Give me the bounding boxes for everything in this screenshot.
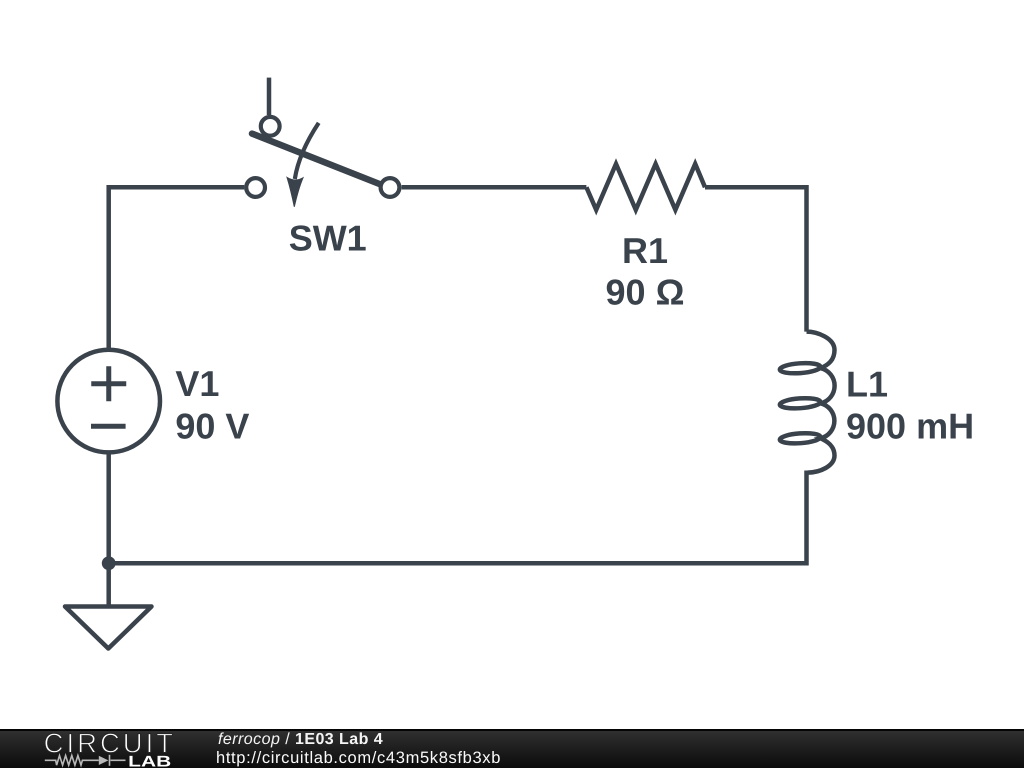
V1 minus sign [91, 424, 126, 429]
wire top-left horizontal and left vertical down to V1 [109, 187, 245, 349]
svg-text:900 mH: 900 mH [846, 406, 974, 447]
junction node dot [102, 556, 116, 570]
svg-text:90 Ω: 90 Ω [606, 272, 685, 313]
inductor L1 loop 1 [780, 362, 821, 375]
wire left vertical below V1 down to ground [106, 453, 111, 606]
switch SW1 top stub wire [267, 78, 272, 115]
ground symbol [65, 607, 152, 649]
footer url line [216, 748, 501, 767]
footer CircuitLab logo [40, 729, 220, 768]
V1 plus sign [91, 366, 126, 401]
wire from switch right terminal to resistor [402, 185, 587, 190]
switch SW1 arrowhead [287, 177, 303, 206]
switch SW1 left terminal circle [246, 178, 265, 197]
switch SW1 arrow arc [295, 123, 319, 179]
svg-text:R1: R1 [622, 230, 668, 271]
svg-text:SW1: SW1 [289, 217, 367, 258]
switch SW1 blade [252, 134, 380, 184]
inductor L1 coil bumps [807, 332, 835, 473]
bottom black footer bar [0, 729, 1024, 768]
inductor L1 loop 2 [780, 397, 821, 410]
resistor R1 body [586, 164, 705, 210]
switch SW1 top terminal circle [261, 117, 280, 136]
svg-text:L1: L1 [846, 363, 888, 404]
logo resistor-diode squiggle [45, 755, 126, 766]
logo diode triangle [99, 756, 109, 765]
wire from resistor to top-right corner down to inductor [705, 187, 807, 331]
wire right vertical below inductor and bottom horizontal [107, 471, 807, 564]
switch SW1 right terminal circle [381, 178, 400, 197]
svg-text:90 V: 90 V [175, 406, 249, 447]
inductor L1 loop 3 [780, 432, 821, 445]
footer title line [218, 731, 383, 749]
voltage source V1 circle [57, 350, 160, 453]
svg-text:V1: V1 [175, 363, 219, 404]
svg-text:LAB: LAB [128, 753, 171, 768]
